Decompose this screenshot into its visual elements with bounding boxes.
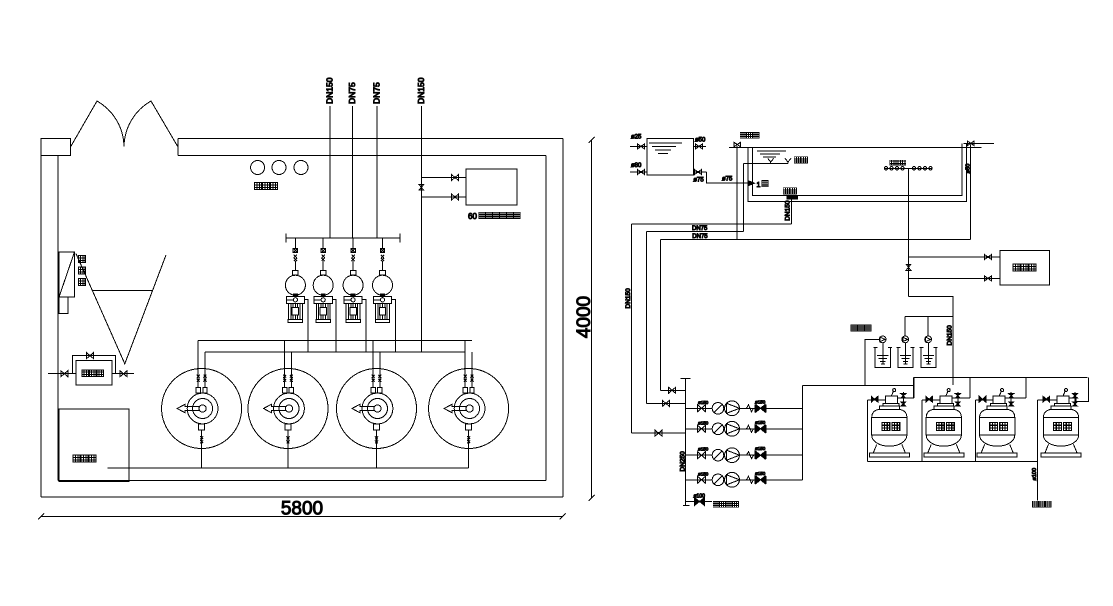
dosing injection lines 2,3 bbox=[904, 316, 906, 336]
filter inlet manifold bbox=[914, 377, 1088, 379]
hair catcher bbox=[712, 403, 724, 415]
riser pipe DN150 (plan) bbox=[329, 106, 331, 238]
make-up outlet pipe bbox=[112, 373, 134, 375]
svg-text:DN150: DN150 bbox=[416, 77, 426, 104]
V channel in floor bbox=[76, 254, 166, 364]
inline pump discharge line bbox=[305, 299, 309, 352]
check valve bbox=[756, 405, 761, 412]
sump pit bbox=[59, 409, 129, 481]
fill horizontal DN75 bbox=[660, 239, 970, 241]
pump bbox=[725, 421, 740, 436]
inline pump discharge line bbox=[332, 299, 336, 352]
riser pipe DN75 (plan) bbox=[376, 106, 378, 238]
hot water boiler box bbox=[1000, 250, 1049, 285]
dosing label bbox=[851, 325, 857, 331]
boiler (plan) 600k kcal hot water boiler bbox=[466, 169, 517, 205]
pool return jets bbox=[890, 160, 895, 165]
flex joint bbox=[747, 476, 754, 483]
main drain horizontal DN150 bbox=[631, 223, 791, 225]
svg-text:DN150: DN150 bbox=[947, 325, 954, 346]
heater loop to filter manifold bbox=[909, 297, 953, 385]
main circulation pump (plan) at x=201.6 bbox=[162, 369, 242, 449]
flex joint bbox=[747, 425, 754, 432]
control box on wall bbox=[59, 252, 74, 297]
drain pipe dia80 bbox=[630, 171, 647, 173]
svg-text:ø100: ø100 bbox=[694, 494, 706, 500]
check valve bbox=[756, 425, 761, 432]
boiler return pipe bbox=[421, 196, 466, 198]
heater loop drop pipe bbox=[908, 168, 910, 296]
dosing device circles (investment) bbox=[251, 161, 265, 175]
main pump headers bbox=[198, 340, 472, 342]
svg-text:ø50: ø50 bbox=[695, 138, 706, 144]
riser pipe DN150 (plan) bbox=[420, 106, 422, 352]
svg-text:ø75: ø75 bbox=[722, 177, 733, 183]
label dosing device bbox=[255, 183, 262, 190]
dosing pump 3 bbox=[925, 336, 932, 343]
svg-text:ø150: ø150 bbox=[755, 420, 766, 425]
heater return branch bbox=[909, 277, 1001, 279]
filtration pump row y=455.2 bbox=[686, 454, 803, 456]
arrow into pool 1 water bbox=[749, 181, 754, 185]
svg-text:ø150: ø150 bbox=[698, 447, 709, 452]
backwash drain header bbox=[868, 460, 1038, 462]
pool shell outer bbox=[748, 143, 967, 201]
dosing tank beaker at x=898 bbox=[898, 347, 913, 367]
label control box (vertical) bbox=[78, 256, 85, 263]
heater supply branch bbox=[909, 256, 1001, 258]
dimension line 4000 right bbox=[591, 140, 593, 498]
valve on riser at boiler bbox=[419, 185, 424, 191]
dosing injection line 1 bbox=[865, 339, 879, 385]
valve on heater drop bbox=[906, 264, 911, 270]
balance tank outlet dia75 bbox=[693, 171, 706, 173]
waste well label bbox=[1032, 501, 1038, 507]
wall inner bottom bbox=[58, 480, 546, 482]
svg-text:ø100: ø100 bbox=[1032, 468, 1038, 481]
svg-text:ø150: ø150 bbox=[755, 471, 766, 476]
vacuum riser bbox=[646, 232, 648, 404]
riser pipe DN75 (plan) bbox=[351, 106, 353, 238]
dosing pump 2 bbox=[902, 336, 909, 343]
pool water surface line bbox=[745, 147, 982, 149]
suction manifold connections bbox=[660, 389, 685, 391]
svg-text:1: 1 bbox=[757, 182, 761, 189]
inline circulation pump at x=295.4 bbox=[294, 238, 296, 249]
fill riser bbox=[659, 240, 661, 391]
svg-text:DN75: DN75 bbox=[692, 226, 708, 232]
svg-text:ø150: ø150 bbox=[698, 400, 709, 405]
label make-up tank bbox=[82, 370, 88, 376]
boiler supply pipe bbox=[421, 177, 466, 179]
inline pump discharge line bbox=[362, 299, 366, 352]
wall top right of door inner bbox=[178, 155, 546, 157]
main circulation pump (plan) at x=288 bbox=[248, 369, 328, 449]
pump bbox=[725, 448, 740, 463]
suction manifold bbox=[685, 379, 687, 506]
svg-text:DN150: DN150 bbox=[625, 288, 632, 309]
bypass valve bbox=[87, 353, 94, 359]
pump discharge header bbox=[801, 386, 803, 480]
make-up inlet pipe bbox=[48, 373, 76, 375]
svg-text:60: 60 bbox=[468, 212, 477, 221]
svg-text:ø150: ø150 bbox=[698, 420, 709, 425]
pool inlet (jin shui kou) label bbox=[740, 133, 746, 139]
dimension line 5800 bottom bbox=[41, 515, 563, 517]
wall top right of door outer bbox=[178, 138, 563, 140]
sand filter 1 bbox=[885, 396, 897, 404]
svg-text:DN150: DN150 bbox=[325, 77, 335, 104]
wall inner left bbox=[57, 156, 59, 481]
hair catcher bbox=[712, 423, 724, 435]
discharge manifold to filters bbox=[802, 385, 913, 387]
sand filter 4 bbox=[1057, 396, 1069, 404]
flex joint bbox=[747, 452, 754, 459]
main circulation pump (plan) at x=468.6 bbox=[429, 369, 509, 449]
wall inner right bbox=[545, 156, 547, 481]
pool water hatch bbox=[757, 150, 786, 152]
filtration pump row y=408.3 bbox=[686, 407, 803, 409]
svg-text:ø50: ø50 bbox=[965, 164, 971, 173]
float valve dia50 bbox=[693, 145, 706, 147]
check valve bbox=[756, 476, 761, 483]
svg-text:ø75: ø75 bbox=[693, 178, 704, 184]
svg-text:ø25: ø25 bbox=[631, 135, 642, 141]
door leaf right bbox=[124, 101, 178, 147]
svg-text:ø150: ø150 bbox=[755, 399, 766, 404]
inline circulation pump at x=382.5 bbox=[382, 238, 384, 249]
inline circulation pump at x=323.2 bbox=[322, 238, 324, 249]
pool deck line right bbox=[963, 142, 994, 144]
main circulation pump (plan) at x=376.5 bbox=[337, 369, 417, 449]
pool inlet pipe bbox=[736, 146, 738, 239]
wall outer left bbox=[40, 139, 42, 497]
balance tank bbox=[647, 138, 693, 175]
balance tank water level bbox=[649, 142, 682, 144]
svg-text:DN75: DN75 bbox=[347, 82, 357, 104]
check valve bbox=[756, 452, 761, 459]
svg-text:ø150: ø150 bbox=[698, 471, 709, 476]
inline pump discharge line bbox=[392, 299, 396, 352]
door right jamb bbox=[177, 139, 179, 156]
pool shell inner bbox=[753, 143, 963, 195]
sand filter 2 bbox=[940, 396, 952, 404]
pool overflow pipe dia50 right bbox=[970, 144, 972, 239]
suction riser DN150 bbox=[630, 224, 632, 433]
wall outer bottom bbox=[41, 496, 563, 498]
svg-text:ø150: ø150 bbox=[755, 446, 766, 451]
dosing pump 1 bbox=[879, 336, 886, 343]
pump bbox=[725, 472, 740, 487]
dosing tank beaker at x=920.9 bbox=[921, 347, 936, 367]
wall outer right bbox=[562, 139, 564, 498]
sand filter 3 bbox=[993, 396, 1005, 404]
vacuum fittings (xi wu) bbox=[768, 158, 774, 163]
backwash drain valve bbox=[686, 501, 712, 503]
make-up tank bypass loop bbox=[72, 356, 115, 374]
drain to waste well bbox=[1036, 461, 1038, 500]
make-up water tank bbox=[76, 361, 112, 386]
svg-text:ø80: ø80 bbox=[631, 163, 642, 169]
hair catcher bbox=[712, 449, 724, 461]
vacuum line in wall bbox=[743, 164, 745, 232]
svg-text:DN75: DN75 bbox=[692, 234, 708, 240]
pump discharge collector to sump bbox=[107, 467, 468, 469]
dosing tank beaker at x=875.2 bbox=[875, 347, 890, 367]
balance tank fill pipe dia25 bbox=[630, 145, 647, 147]
svg-text:4000: 4000 bbox=[574, 296, 595, 338]
filtration pump row y=428.8 bbox=[686, 428, 803, 430]
vacuum horizontal DN75 bbox=[647, 231, 744, 233]
hair catcher bbox=[712, 474, 724, 486]
door leaf left bbox=[71, 101, 125, 147]
main drain (zhu pai) bbox=[783, 188, 789, 194]
filtration pump row y=479.8 bbox=[686, 479, 803, 481]
label sump pit bbox=[73, 455, 80, 462]
svg-text:DN250: DN250 bbox=[679, 451, 686, 472]
inline pump suction header bbox=[286, 237, 400, 239]
svg-text:DN150: DN150 bbox=[784, 200, 791, 221]
svg-text:DN75: DN75 bbox=[372, 82, 382, 104]
inline circulation pump at x=353.1 bbox=[352, 238, 354, 249]
boiler label (schematic) bbox=[1013, 264, 1020, 271]
pump bbox=[725, 401, 740, 416]
svg-text:5800: 5800 bbox=[281, 499, 323, 520]
wall top-left jamb piece bbox=[41, 139, 71, 156]
flex joint bbox=[747, 405, 754, 412]
